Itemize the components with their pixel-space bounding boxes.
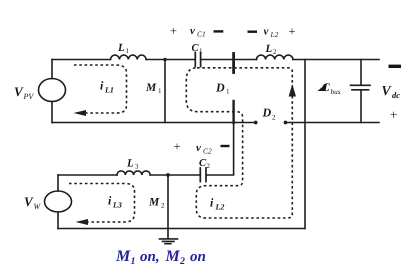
svg-text:bus: bus — [331, 88, 341, 96]
svg-text:2: 2 — [179, 256, 185, 267]
svg-text:L: L — [126, 158, 134, 170]
label iCbus — [318, 83, 328, 91]
svg-text:V: V — [14, 84, 24, 99]
svg-text:V: V — [24, 194, 34, 209]
node M2 top — [166, 173, 170, 177]
svg-text:2: 2 — [207, 162, 211, 170]
wire mid rail left — [52, 122, 256, 124]
current loop iL3 — [69, 184, 135, 223]
svg-text:C1: C1 — [197, 30, 206, 39]
svg-text:i: i — [108, 194, 112, 208]
inductor L1 — [111, 55, 147, 59]
svg-text:D: D — [262, 106, 272, 120]
wire C2 to D1 — [206, 174, 234, 176]
node M1 top — [163, 58, 166, 61]
wire top rail mid — [146, 59, 195, 61]
wire D1 to C2 branch — [233, 123, 235, 175]
svg-text:M: M — [145, 82, 157, 94]
svg-text:i: i — [100, 79, 104, 93]
diode D2 (gap with terminals) — [286, 122, 380, 124]
arrow iL2 up — [289, 84, 296, 97]
wire VPV bottom lead — [51, 102, 53, 123]
svg-text:2: 2 — [161, 202, 165, 210]
current loop iL2 — [186, 68, 292, 218]
wire VPV top lead — [51, 60, 53, 79]
svg-text:1: 1 — [158, 87, 162, 95]
wire top rail left — [52, 59, 111, 61]
inductor L3 — [117, 171, 150, 175]
wire W bottom rail — [58, 228, 305, 230]
label minus top right — [389, 65, 402, 68]
wire VW bottom lead — [57, 212, 59, 229]
svg-text:v: v — [190, 25, 195, 37]
source VPV — [39, 79, 66, 102]
svg-text:PV: PV — [23, 92, 35, 101]
svg-text:M: M — [115, 248, 131, 265]
svg-text:C2: C2 — [203, 147, 212, 156]
node D2 anode — [254, 121, 258, 125]
svg-text:L: L — [265, 43, 273, 55]
caption M1 on, M2 on — [115, 248, 206, 267]
switch M1 — [164, 60, 166, 123]
svg-text:i: i — [210, 196, 214, 210]
svg-text:v: v — [264, 26, 269, 38]
svg-text:L3: L3 — [112, 201, 122, 210]
svg-text:C: C — [322, 82, 330, 94]
capacitor Cbus — [360, 60, 362, 123]
svg-text:v: v — [196, 142, 201, 154]
inductor L2 — [257, 55, 293, 59]
capacitor C1 — [195, 53, 200, 67]
svg-text:+: + — [174, 140, 181, 154]
svg-text:D: D — [215, 81, 225, 95]
source VW — [45, 191, 72, 212]
wire top rail right — [293, 59, 379, 61]
svg-text:2: 2 — [273, 48, 277, 56]
current loop iL1 — [74, 65, 127, 113]
switch M2 — [167, 175, 169, 229]
svg-text:3: 3 — [135, 163, 139, 171]
svg-text:M: M — [148, 197, 160, 209]
node D2 cathode — [284, 121, 288, 125]
wire top rail mid2 — [201, 59, 257, 61]
svg-text:1: 1 — [126, 47, 130, 55]
svg-text:+: + — [289, 25, 296, 39]
svg-text:1: 1 — [226, 88, 230, 96]
svg-text:2: 2 — [272, 114, 276, 122]
svg-text:+: + — [390, 107, 397, 122]
svg-text:dc: dc — [392, 90, 400, 100]
svg-text:L1: L1 — [104, 86, 114, 95]
wire W top rail left — [58, 174, 117, 176]
svg-text:V: V — [382, 83, 392, 98]
ground — [160, 229, 178, 244]
svg-text:+: + — [170, 24, 177, 38]
svg-text:L2: L2 — [215, 203, 225, 212]
wire VW top lead — [57, 175, 59, 191]
svg-text:L2: L2 — [270, 30, 279, 39]
wire W top rail mid — [150, 174, 200, 176]
diode D1 upper stub — [232, 54, 235, 73]
capacitor C2 — [200, 168, 206, 182]
diode D1 lower lead — [232, 101, 234, 123]
arrow iL1 — [74, 110, 87, 116]
svg-text:M: M — [165, 248, 181, 265]
svg-text:on,: on, — [140, 249, 160, 265]
svg-text:1: 1 — [131, 256, 136, 267]
arrow iL3 — [76, 219, 89, 225]
wire right rail — [304, 60, 306, 229]
svg-text:1: 1 — [199, 47, 203, 55]
label vL2 — [248, 31, 258, 33]
svg-text:L: L — [117, 42, 125, 54]
svg-text:W: W — [34, 202, 42, 211]
svg-text:on: on — [190, 249, 206, 265]
